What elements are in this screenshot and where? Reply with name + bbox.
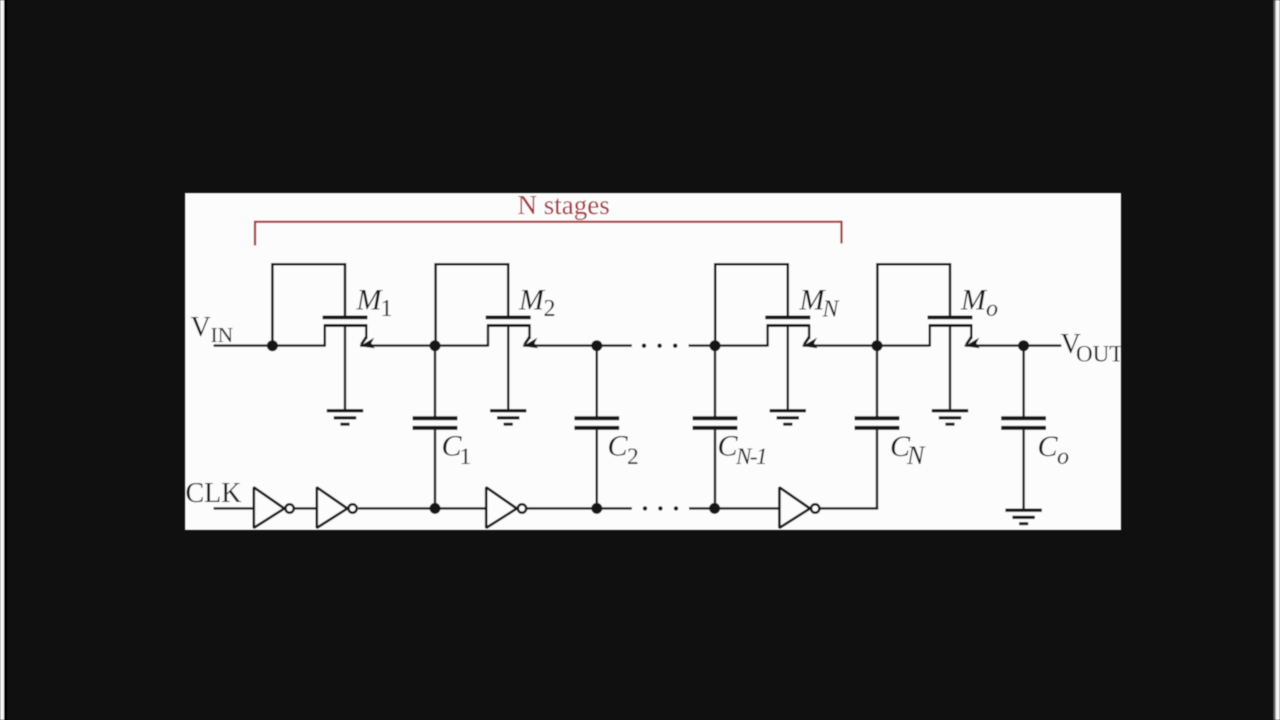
ground of M2 <box>490 411 526 425</box>
wire VIN to M1 <box>214 344 326 346</box>
left screen-edge white sliver <box>0 0 4 720</box>
svg-text:1: 1 <box>381 296 393 322</box>
node 4 <box>710 340 721 351</box>
ground of MN <box>770 411 806 425</box>
wire dots to inverter U4 <box>689 507 779 509</box>
ellipsis dots on clock line <box>643 506 678 510</box>
wire Mo source to VOUT <box>965 344 1062 346</box>
svg-text:N: N <box>822 297 841 323</box>
inverter U2 <box>317 487 357 528</box>
capacitor CN-1 <box>714 346 716 509</box>
N stages bracket <box>255 221 842 246</box>
transistor M1 <box>272 264 374 411</box>
clock wire CLK to inverter U1 <box>214 507 254 509</box>
ground of M1 <box>327 411 363 425</box>
ground of Co <box>1005 510 1041 524</box>
capacitor CN <box>876 346 878 509</box>
svg-text:V: V <box>191 312 211 343</box>
svg-text:1: 1 <box>460 444 472 470</box>
wire MN source to Mo <box>803 344 930 346</box>
ground of Mo <box>932 411 968 425</box>
svg-text:IN: IN <box>211 323 234 347</box>
transistor Mo <box>877 264 979 411</box>
svg-text:o: o <box>986 296 998 322</box>
svg-text:N-1: N-1 <box>735 444 766 469</box>
capacitor Co <box>1022 346 1024 511</box>
svg-text:2: 2 <box>544 296 556 322</box>
clock node at C2 <box>591 503 602 514</box>
svg-text:M: M <box>960 284 988 317</box>
transistor MN <box>715 264 817 411</box>
wire U4 to CN <box>820 507 878 509</box>
wire U1 to U2 <box>294 507 317 509</box>
node 3 <box>591 340 602 351</box>
transistor M2 <box>436 264 538 411</box>
node 2 <box>430 340 441 351</box>
wire dots to MN <box>689 344 767 346</box>
svg-text:C: C <box>608 430 629 463</box>
node 6 (VOUT) <box>1018 340 1029 351</box>
wire U2 to U3 <box>358 507 486 509</box>
node 1 (VIN) <box>267 340 278 351</box>
svg-text:M: M <box>518 284 546 317</box>
white schematic panel <box>185 193 1121 530</box>
wire U3 to dots <box>527 507 632 509</box>
svg-text:N stages: N stages <box>518 190 610 220</box>
inverter U1 <box>254 487 294 528</box>
wire M1 source to M2 <box>360 344 487 346</box>
right screen-edge gray border <box>1273 0 1275 720</box>
clock node at CN-1 <box>709 503 720 514</box>
inverter U3 <box>486 487 526 528</box>
wire M2 source rightward <box>523 344 632 346</box>
svg-text:C: C <box>1038 430 1059 463</box>
right screen-edge white sliver <box>1276 0 1280 720</box>
clock node at C1 <box>430 503 441 514</box>
svg-text:CLK: CLK <box>186 478 242 509</box>
svg-text:M: M <box>356 284 384 317</box>
svg-text:o: o <box>1057 444 1069 470</box>
node 5 <box>872 340 883 351</box>
capacitor C2 <box>596 346 598 509</box>
svg-text:2: 2 <box>627 444 639 470</box>
svg-text:N: N <box>906 441 926 470</box>
inverter U4 <box>779 487 819 528</box>
left screen-edge dark border <box>4 0 7 720</box>
capacitor C1 <box>434 346 436 509</box>
ellipsis dots on top rail <box>642 344 678 348</box>
svg-text:OUT: OUT <box>1076 341 1123 366</box>
